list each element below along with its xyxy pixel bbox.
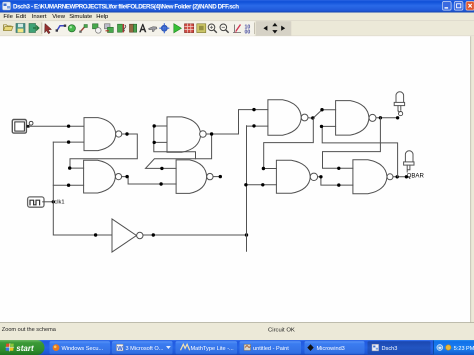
node dot G1 in2 — [67, 140, 70, 143]
inverter I1 — [112, 219, 143, 252]
wire G1 input 2 from clk rail — [53, 141, 84, 143]
NAND gate G7 (slave input bottom) — [276, 160, 317, 193]
svg-text:Windows Secu...: Windows Secu... — [62, 346, 104, 352]
icon button tool — [68, 25, 75, 32]
NAND gate G4 (bottom-right master) — [176, 160, 213, 194]
node dot G8 in2 — [337, 183, 340, 186]
icon zoom in — [208, 24, 217, 33]
wire G6 output feedback to G8 input 1 — [323, 118, 381, 169]
LED QBAR indicator — [404, 151, 414, 172]
close button — [466, 2, 474, 11]
wire G2 output to G5 input — [206, 110, 268, 134]
title bar app icon — [3, 2, 11, 10]
svg-text:View: View — [52, 14, 65, 20]
svg-text:5:23 PM: 5:23 PM — [454, 346, 474, 352]
system tray — [433, 340, 474, 355]
button D input symbol — [12, 120, 33, 134]
icon cursor — [45, 24, 52, 34]
icon exit — [29, 24, 39, 33]
task button 6 Dsch3 active — [368, 341, 431, 354]
icon wire tool — [56, 25, 67, 32]
node dot G2 in1 — [153, 124, 156, 127]
svg-text:Insert: Insert — [32, 14, 47, 20]
wire clk rail vertical to inverter — [53, 142, 112, 235]
svg-text:start: start — [16, 344, 34, 353]
node dot G2 in2 — [153, 141, 156, 144]
icon connect tool — [79, 25, 87, 33]
wire G8 output to QBAR LED — [393, 176, 410, 178]
title bar — [0, 0, 474, 13]
svg-text:Help: Help — [96, 14, 109, 20]
wire G3 output to G4 input 2 — [122, 177, 177, 184]
node dot clkbar rail bottom — [245, 233, 248, 236]
svg-text:Dsch3 - E:\KUMARNEWPROJECTSL\f: Dsch3 - E:\KUMARNEWPROJECTSL\for file\FO… — [13, 4, 239, 11]
icon block2 — [130, 24, 137, 32]
svg-text:Dsch3: Dsch3 — [382, 346, 398, 352]
icon duplicate — [105, 24, 114, 33]
NAND gate G2 (top-right master) — [167, 117, 206, 152]
node dot G6 out — [379, 116, 382, 119]
node dot G2 out — [210, 132, 213, 135]
svg-text:clk1: clk1 — [54, 200, 64, 206]
clock source clk1 — [28, 197, 44, 207]
icon probe — [149, 27, 158, 32]
task button 3 MathType — [176, 341, 238, 354]
node dot LED QBAR connection — [405, 175, 408, 178]
task button 2 Microsoft Office group — [112, 341, 173, 354]
svg-text:QBAR: QBAR — [407, 172, 425, 179]
node dot inverter out — [152, 233, 155, 236]
task button 5 Microwind3 — [305, 341, 365, 354]
NAND gate G1 (top-left master) — [84, 118, 122, 151]
icon hex display — [245, 24, 251, 35]
wire G2 output branch to G4 input — [146, 134, 212, 168]
NAND gate G5 (slave input top) — [268, 100, 308, 136]
status bar — [0, 323, 474, 341]
wire clkbar rail vertical — [247, 126, 268, 251]
node dot G5 in2 — [252, 124, 255, 127]
svg-text:Edit: Edit — [16, 14, 27, 20]
node dot G7 out — [319, 175, 322, 178]
minimize button — [443, 2, 452, 11]
node dot G3 out — [125, 175, 128, 178]
node dot G6 in2 — [320, 125, 323, 128]
node dot G6 in1 — [320, 108, 323, 111]
icon cut-block — [118, 24, 126, 32]
wire G2 tied inputs — [154, 126, 196, 159]
icon zoom out — [220, 24, 229, 33]
svg-text:File: File — [3, 14, 13, 20]
wire inverter output to clkbar rail — [143, 234, 247, 236]
svg-text:W: W — [117, 346, 123, 352]
svg-text:Simulate: Simulate — [69, 14, 93, 20]
svg-text:Microwind3: Microwind3 — [317, 346, 345, 352]
NAND gate G6 (slave Q gate) — [336, 101, 376, 136]
node dot G8 out — [396, 175, 399, 178]
node dot on D wire — [67, 125, 70, 128]
node dot LED Q connection — [396, 116, 399, 119]
wire G7 output to G8 input 2 — [318, 177, 353, 185]
wire D: button to G1 input — [30, 125, 85, 127]
svg-text:MathType Lite -...: MathType Lite -... — [191, 346, 235, 352]
node dot G1 out — [125, 132, 128, 135]
icon library — [197, 24, 206, 33]
icon signal editor — [233, 25, 241, 33]
NAND gate G8 (slave QBAR gate) — [353, 160, 393, 194]
svg-text:untitled - Paint: untitled - Paint — [253, 346, 289, 352]
svg-text:Zoom out the schema: Zoom out the schema — [2, 327, 57, 333]
icon save — [16, 24, 25, 33]
node dot G5 out — [311, 116, 314, 119]
node dot G5 in1 — [252, 108, 255, 111]
start button — [0, 340, 45, 355]
wire G4 output stub — [213, 176, 220, 178]
svg-text:00: 00 — [245, 30, 251, 36]
node dot clkbar-G7 junction — [244, 183, 247, 186]
icon crosshair — [159, 23, 169, 33]
node dot G8 in1 — [337, 167, 340, 170]
wire G5 output diagonal to G6 input 1 — [308, 110, 336, 119]
maximize button — [454, 2, 463, 11]
taskbar — [0, 340, 474, 355]
wire G3 input 2 from clk rail — [53, 184, 83, 186]
node dot G4 out — [219, 175, 222, 178]
node dot G4 in1 — [160, 167, 163, 170]
svg-text:3 Microsoft O...: 3 Microsoft O... — [126, 346, 164, 352]
LED Q indicator — [394, 92, 404, 116]
NAND gate G3 (bottom-left master) — [84, 160, 122, 193]
nav pad arrows — [263, 23, 285, 34]
node dot G3 in2 — [67, 184, 70, 187]
toolbar — [4, 21, 292, 36]
node dot G7 in1 — [262, 167, 265, 170]
wire clk source to rail — [43, 201, 54, 203]
icon open — [4, 25, 14, 31]
node dot clk — [52, 200, 55, 203]
node dot G7 in2 — [261, 183, 264, 186]
node dot inverter input — [94, 233, 97, 236]
task button 4 Paint — [240, 341, 302, 354]
wire G8 output feedback to G6 input 2 — [322, 126, 397, 176]
node dot G4 in2 — [159, 182, 162, 185]
icon copy — [93, 24, 102, 33]
task button 1 Windows Security — [50, 341, 111, 354]
wire clkbar to G7 input 2 — [247, 184, 277, 186]
icon timing — [185, 24, 194, 33]
wire G1 output to G3 input (feedback) — [70, 134, 137, 168]
node dot G3 in1 — [68, 166, 71, 169]
wire G5 output down to G7 input 1 — [264, 118, 314, 168]
wire G6 output to LED Q — [376, 117, 398, 119]
svg-text:Circuit OK: Circuit OK — [268, 328, 295, 334]
menu bar — [3, 14, 109, 20]
icon run — [174, 24, 182, 33]
icon text — [139, 24, 146, 32]
